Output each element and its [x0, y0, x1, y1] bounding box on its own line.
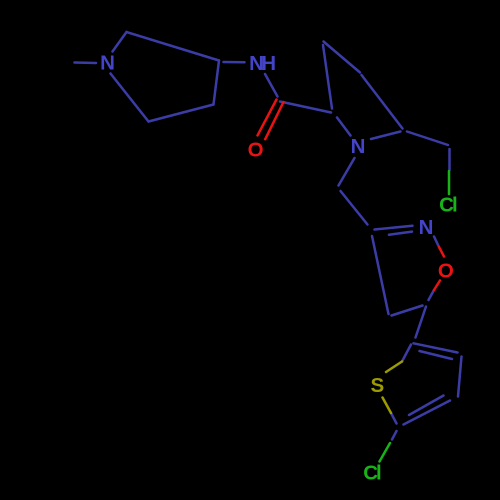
bond isoxazole C5 to thiophene C2 [416, 307, 427, 338]
isoxazole C5-C4 bond [392, 306, 423, 316]
isoxazole N-O bond blue half [434, 237, 439, 248]
bond C4 to amide NH [224, 61, 245, 64]
amide C=O double bond line 2 [265, 102, 283, 139]
svg-text:Cl: Cl [363, 462, 382, 485]
thiophene C5-Cl bond blue stub [392, 431, 397, 440]
thiophene C2=C3 main line [414, 343, 458, 352]
bond carbonyl C to pyrrolidine C2 [280, 102, 331, 113]
isoxazole C3=N main line [375, 226, 413, 230]
svg-text:S: S [370, 374, 384, 397]
svg-text:N: N [351, 135, 366, 158]
piperidine C5-C6 bond [149, 105, 214, 122]
thiophene C2-S bond olive half [386, 362, 402, 373]
CH2 linker to isoxazole C3 bond [341, 191, 368, 225]
piperidine C4-C5 bond [214, 61, 220, 105]
amide C=O double bond line 1 [258, 100, 277, 136]
svg-text:N: N [419, 216, 434, 239]
svg-text:Cl: Cl [439, 194, 458, 217]
thiophene S-C5 bond blue half [391, 413, 397, 424]
piperidine N-C2 bond [113, 32, 127, 52]
chloromethyl C-Cl bond green half [448, 171, 451, 194]
thiophene C2=C3 inner line [420, 351, 453, 359]
piperidine C6-N bond [111, 74, 149, 122]
piperidine N-methyl bond [75, 61, 97, 64]
pyrrolidine C4-C5 bond [362, 75, 403, 129]
svg-text:O: O [438, 259, 454, 282]
pyrrolidine N-CH2 linker bond [339, 158, 355, 186]
thiophene S-C5 bond olive half [383, 398, 392, 414]
isoxazole N-O bond red half [439, 247, 444, 257]
pyrrolidine C5-N bond [371, 132, 401, 140]
svg-text:N: N [100, 52, 115, 75]
isoxazole C4-C3 bond [372, 236, 389, 314]
C-Cl bond upper half (carbon side) [448, 149, 451, 170]
isoxazole O-C5 bond red half [434, 281, 440, 291]
piperidine top edge C2-C3-C4 [127, 32, 220, 61]
thiophene C5-Cl bond green half [380, 443, 391, 462]
pyrrolidine C2-C3 bond [323, 45, 332, 109]
bond C5 to chloromethyl C [407, 132, 448, 146]
bond NH to carbonyl C [265, 74, 278, 97]
thiophene C3-C4 bond [458, 357, 462, 397]
isoxazole C3=N inner line [389, 232, 412, 235]
pyrrolidine C3-C4 bond [324, 42, 361, 73]
isoxazole O-C5 bond blue half [429, 290, 435, 300]
svg-text:O: O [248, 138, 264, 161]
thiophene C2-S bond blue half [402, 345, 411, 362]
thiophene C4=C5 inner line [409, 396, 444, 416]
svg-text:NH: NH [249, 52, 276, 75]
thiophene C4=C5 main line [404, 401, 451, 425]
pyrrolidine C2-N bond [337, 118, 351, 136]
